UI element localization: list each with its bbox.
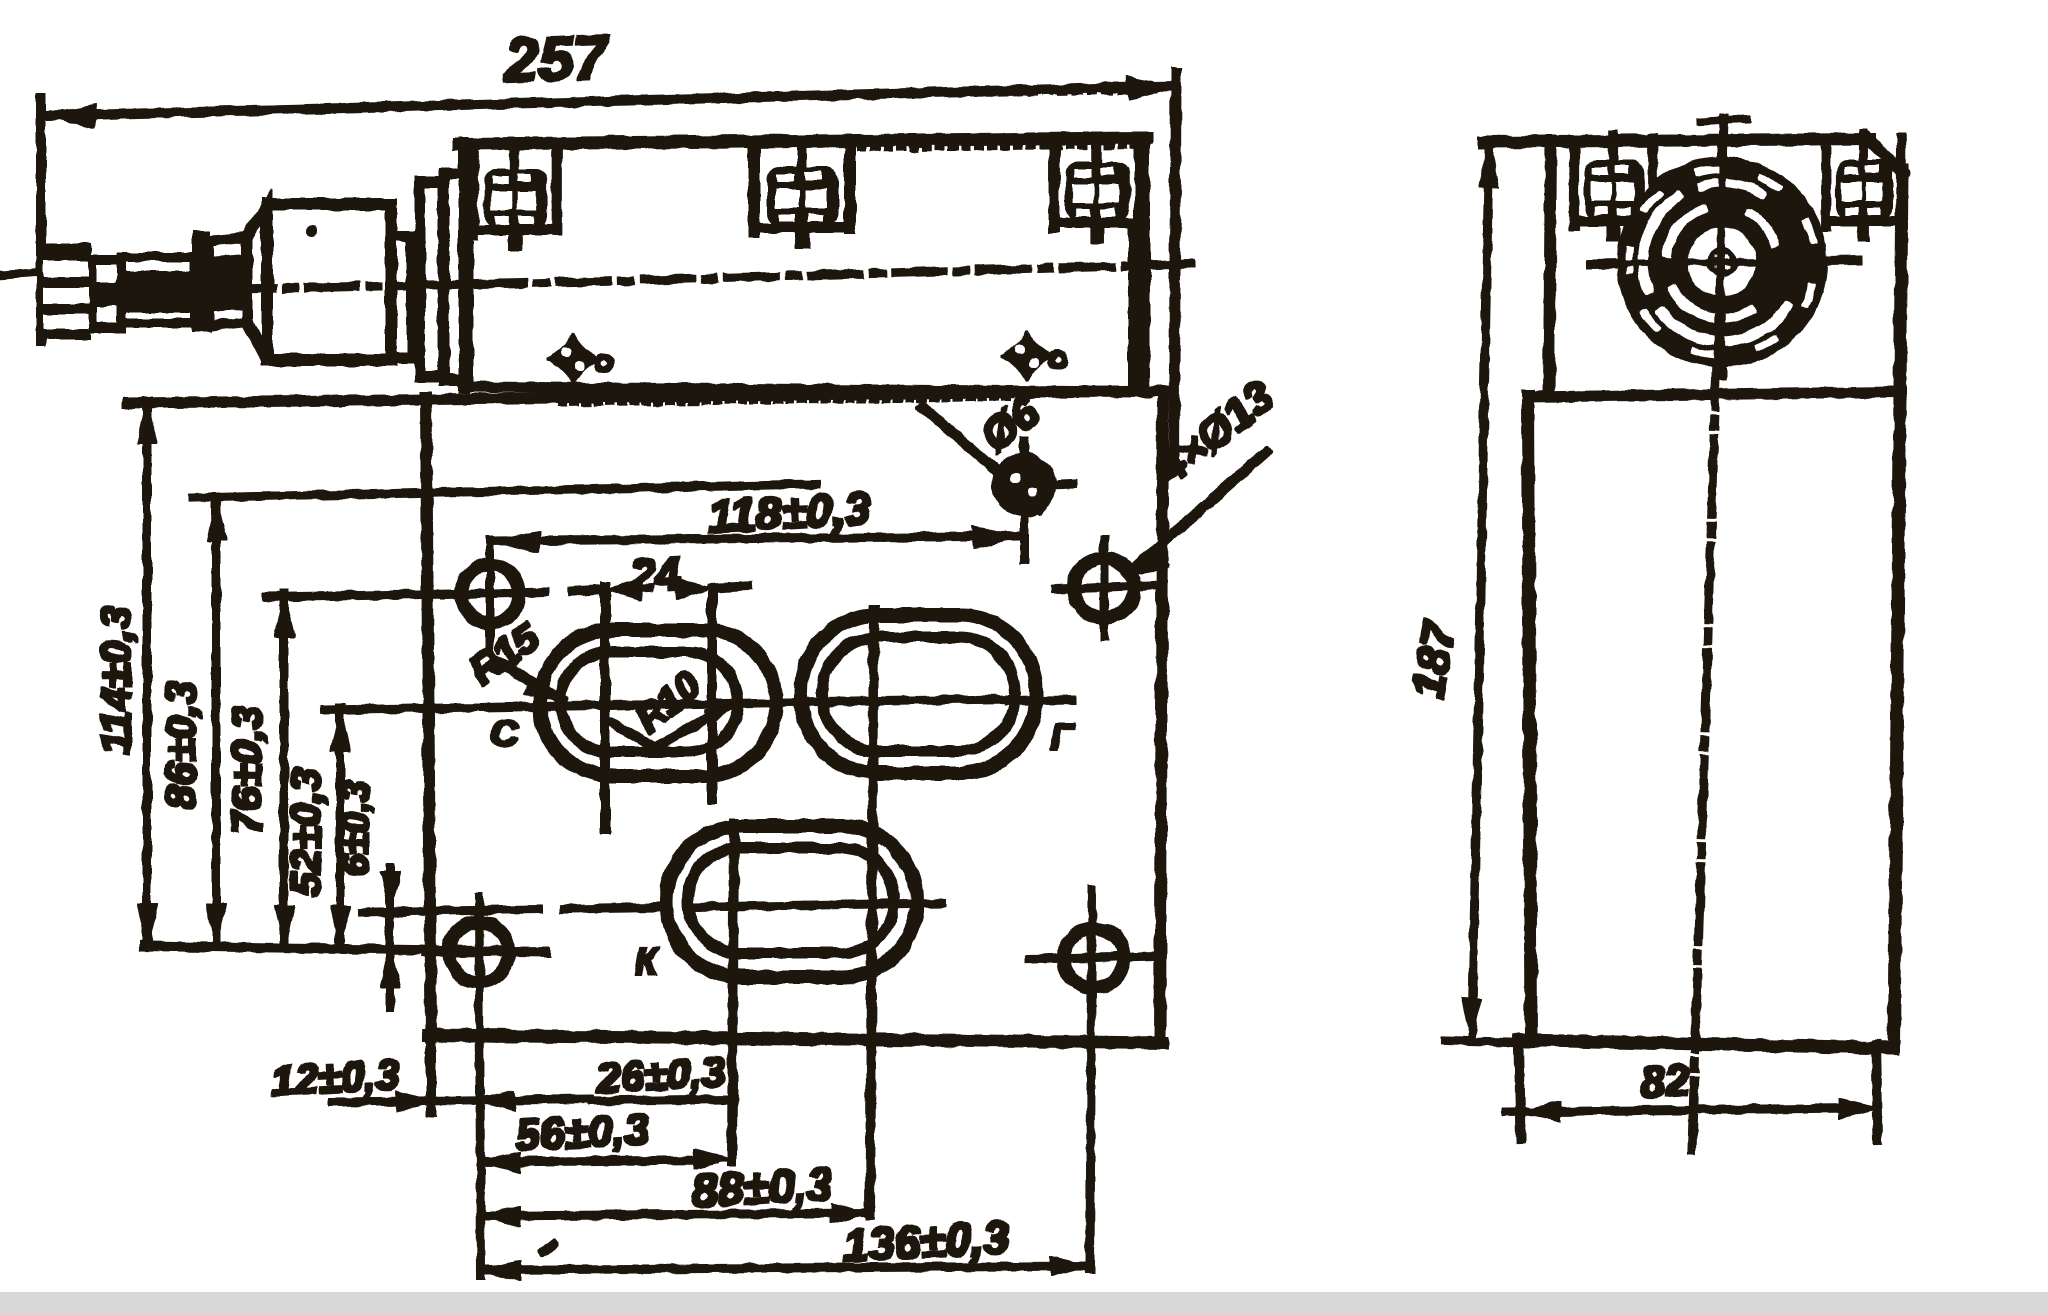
valve body top edge [459, 138, 1146, 144]
R10 arrow [705, 702, 735, 724]
G slot vertical centerline [870, 610, 874, 1215]
valve body bottom edge [464, 387, 1146, 392]
clamp R2 [1826, 135, 1901, 241]
valve body right edge [1139, 138, 1149, 392]
svg-text:82: 82 [1640, 1056, 1692, 1108]
dim 82 extension left [1519, 1048, 1521, 1138]
knob horizontal centerline [1592, 260, 1856, 264]
svg-text:56±0,3: 56±0,3 [514, 1105, 651, 1161]
housing ring 2 [420, 182, 443, 377]
hole top-right arms [1056, 586, 1152, 589]
plunger axis tick (far left) [2, 272, 40, 275]
dim6 stub line [362, 912, 400, 913]
svg-text:114±0,3: 114±0,3 [92, 606, 139, 754]
diamond mark 2 [1001, 331, 1065, 381]
4xO13 arrow [1126, 552, 1169, 575]
svg-text:24: 24 [627, 547, 682, 602]
right view step line [1528, 392, 1893, 397]
K slot vertical centerline [732, 823, 734, 1161]
right view top edge [1484, 139, 1870, 142]
dim 136 line [484, 1266, 1090, 1270]
clamp L1 [473, 144, 557, 250]
oval slot K outer [666, 826, 917, 977]
svg-text:76±0,3: 76±0,3 [223, 706, 270, 834]
solenoid housing box [267, 204, 391, 360]
dim 56 line [484, 1160, 714, 1162]
slot G right centerline tail [1008, 700, 1072, 701]
4xO13 leader line [1128, 452, 1266, 573]
plate top edge [128, 391, 1163, 403]
slot centerline C-G [324, 699, 1008, 710]
slot K centerline [378, 903, 942, 912]
diamond mark 1 [547, 334, 611, 384]
clamp R1 [1574, 135, 1653, 241]
svg-text:52±0,3: 52±0,3 [282, 768, 329, 896]
dim 52 line [337, 708, 344, 948]
dim24 stubs [572, 589, 605, 591]
centerline top tick [1700, 119, 1748, 121]
hole top-right (4xO13) [1074, 558, 1134, 618]
hole top-left arms [444, 592, 545, 595]
knob cross vertical [1721, 150, 1722, 375]
clamp L3 side line to body bottom [1129, 229, 1137, 390]
svg-text:К: К [635, 941, 660, 982]
right view left edge lower [1528, 396, 1531, 1041]
dim 257 arrow left [45, 105, 97, 128]
R15 arrow [525, 678, 566, 701]
dim 88 line [484, 1213, 870, 1216]
svg-text:136±0,3: 136±0,3 [842, 1211, 1011, 1272]
plate left edge [426, 397, 431, 1037]
svg-text:257: 257 [502, 23, 611, 96]
knob body (heavy ink) [1618, 158, 1826, 366]
hole bottom-left [449, 922, 509, 982]
dim118 line [490, 536, 1020, 541]
plunger thin shaft [121, 257, 195, 323]
knob center ring [1710, 250, 1734, 274]
dim 257 extension line left [37, 98, 45, 341]
dim 257 line [45, 86, 1175, 116]
dim24 extension line left [601, 586, 609, 830]
dim 86 line [213, 497, 220, 946]
oval slot G outer [801, 615, 1036, 773]
svg-text:12±0,3: 12±0,3 [270, 1051, 400, 1105]
svg-text:86±0,3: 86±0,3 [157, 681, 204, 809]
oval slot C outer [540, 630, 776, 776]
dim24 extension line right [708, 596, 716, 800]
svg-text:88±0,3: 88±0,3 [691, 1157, 834, 1216]
dim 12 line [333, 1099, 590, 1102]
body axis centerline [140, 264, 1190, 291]
dim 257 extension line right [1174, 73, 1176, 468]
bottom reference line y946 [145, 946, 545, 952]
plunger mid shaft [209, 237, 247, 326]
hole bottom-left arms [425, 951, 545, 953]
R15 leader [497, 661, 563, 700]
small tick on 136 line [543, 1244, 553, 1252]
right view right edge [1894, 170, 1902, 1046]
knob white ring arcs [1662, 307, 1787, 341]
plunger knurled knob [42, 244, 90, 338]
hole bottom-right [1064, 928, 1124, 988]
dim 257 arrow right [1126, 77, 1177, 99]
knob white center [1689, 229, 1755, 295]
clamp L3 [1054, 137, 1139, 243]
oval slot G inner [822, 637, 1015, 751]
housing ring 1 [391, 236, 412, 358]
svg-text:26±0,3: 26±0,3 [595, 1048, 726, 1102]
bottom scan strip [0, 1292, 2048, 1315]
reference line y594 (hole TL level) [267, 594, 450, 597]
valve body left edge [460, 142, 469, 388]
clamp L2 [754, 142, 850, 248]
right view bottom overhang line [1446, 1041, 1531, 1043]
dim 82 line [1506, 1108, 1856, 1112]
plunger neck [90, 260, 121, 328]
oval slot K inner [688, 848, 894, 953]
right view left edge upper [1549, 141, 1551, 396]
plate left edge extension down [427, 1040, 435, 1112]
dim24 arrows [607, 580, 643, 600]
hole bottom-right arms [1030, 956, 1158, 959]
plunger step collar [193, 231, 210, 331]
svg-text:118±0,3: 118±0,3 [707, 482, 872, 542]
dim 6 line [387, 868, 394, 1008]
O6 leader line [923, 407, 1040, 509]
dim 82 extension right [1876, 1045, 1878, 1140]
dim 76 line [281, 594, 288, 948]
dim 187 line [1472, 150, 1489, 1038]
svg-text:6±0,3: 6±0,3 [335, 781, 377, 876]
hole top-left [461, 565, 519, 623]
dim118 arrows [492, 531, 540, 552]
plate right edge [1160, 391, 1163, 1043]
oval slot C inner [560, 652, 738, 752]
right view vertical centerline [1692, 118, 1724, 1150]
R10 leader [613, 703, 733, 748]
reference line y497 (to O6 level) [192, 484, 816, 498]
right view top-right chamfer [1868, 139, 1903, 173]
dim 114 line [144, 401, 151, 946]
plate bottom edge [428, 1035, 1162, 1043]
svg-text:С: С [491, 713, 519, 754]
hole O6 (filled) [997, 440, 1073, 560]
svg-text:Г: Г [1051, 717, 1076, 758]
mounting flange [444, 174, 468, 380]
plunger cone [247, 206, 267, 360]
right view bottom edge [1519, 1040, 1894, 1048]
knob cross horizontal [1640, 261, 1804, 263]
